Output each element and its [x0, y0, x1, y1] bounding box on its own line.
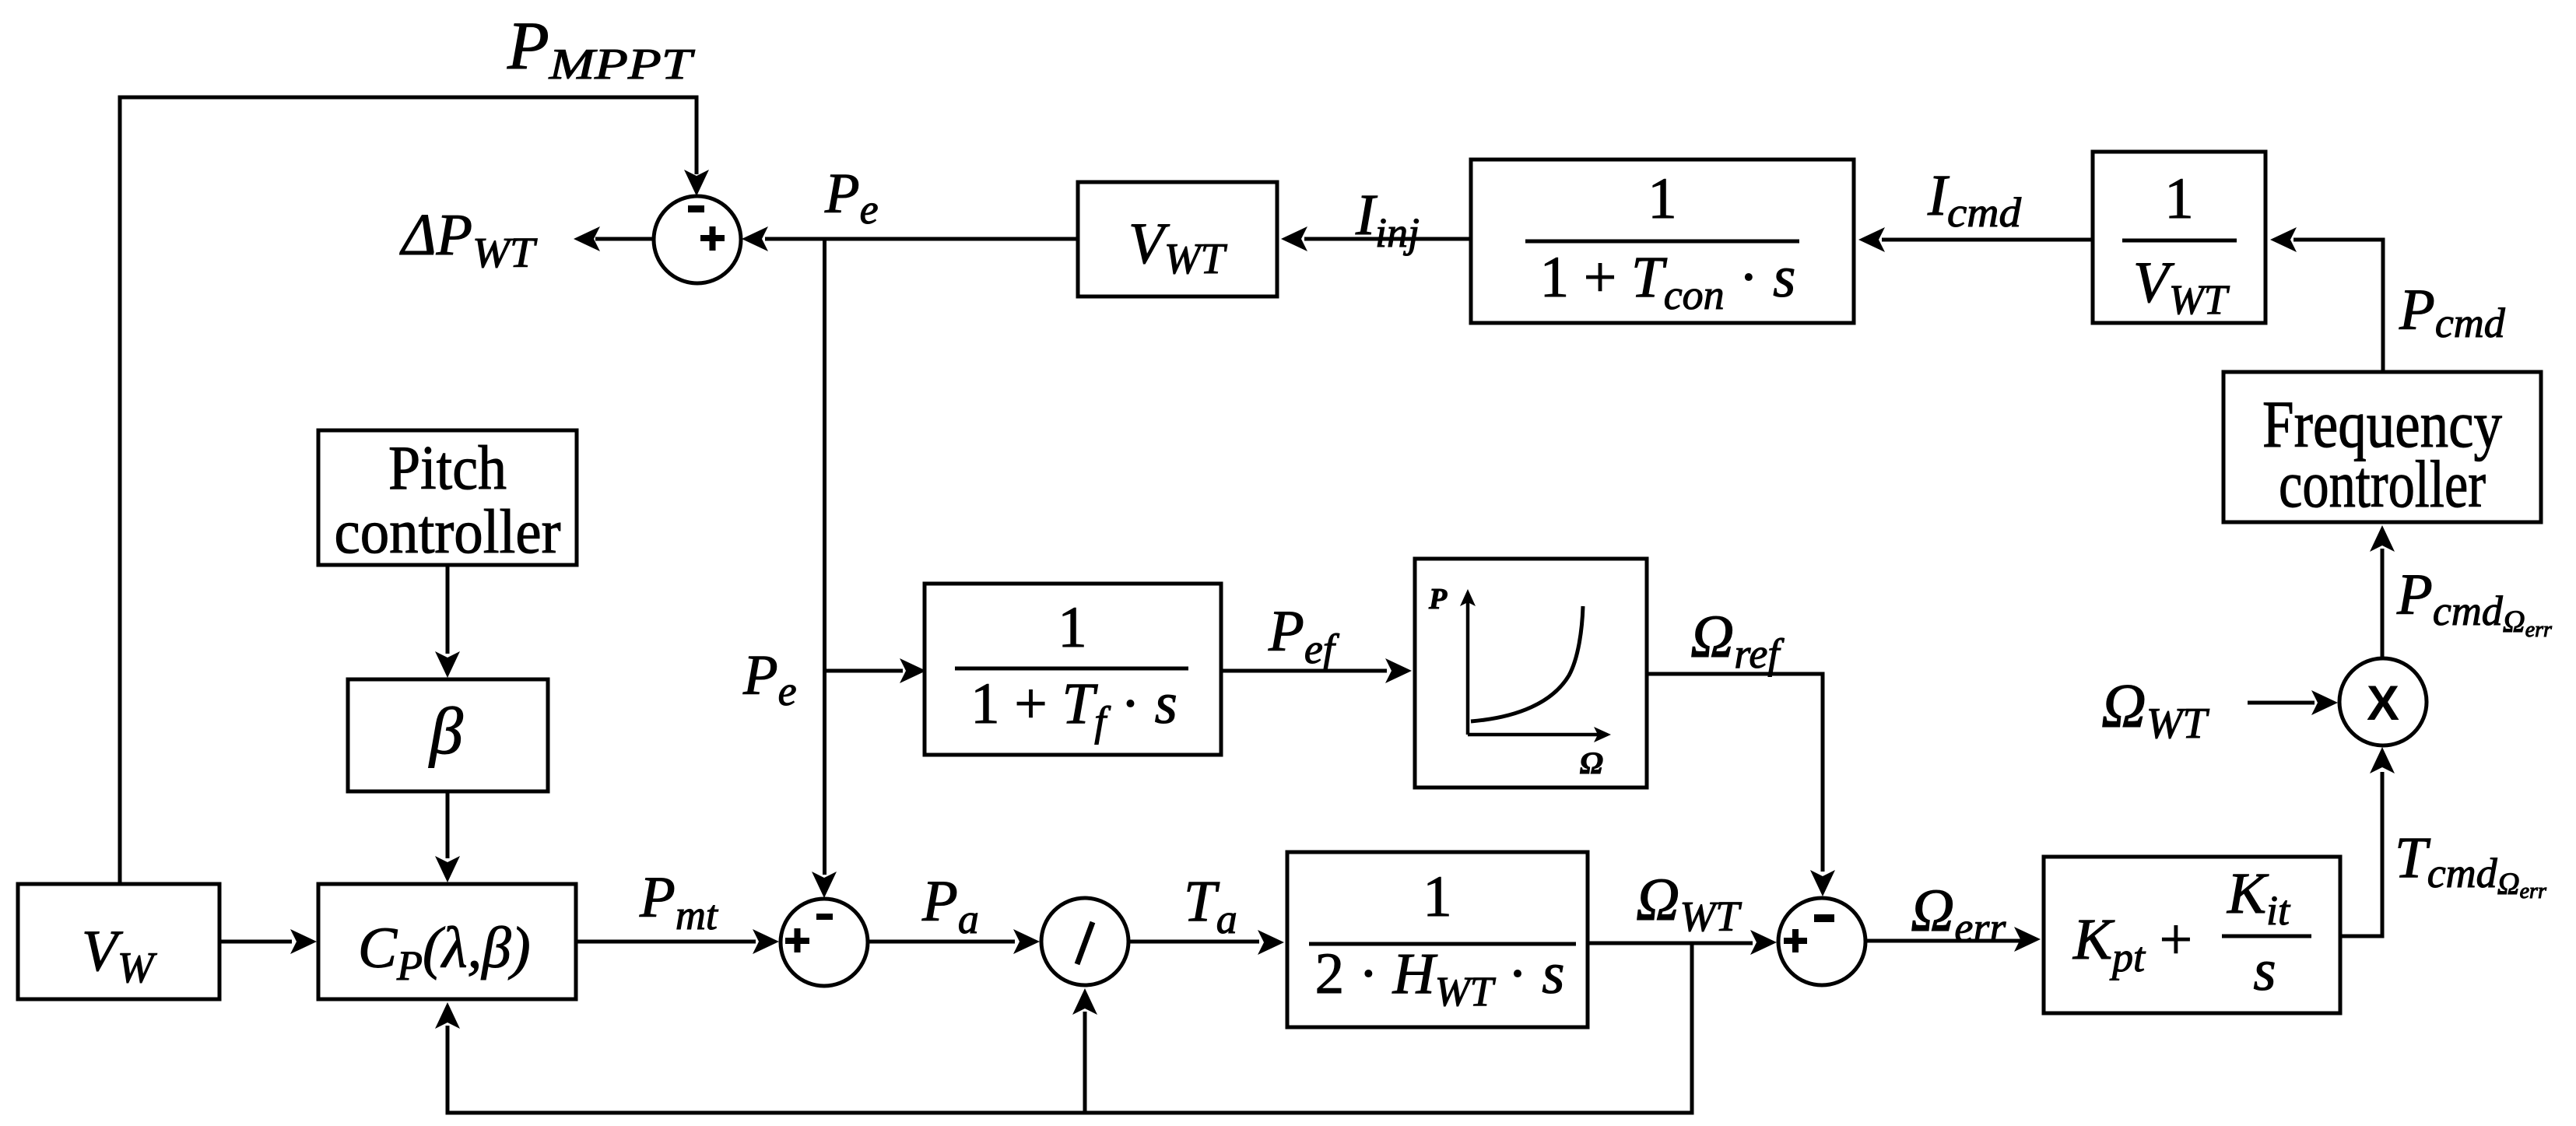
plus sign in S1: [700, 226, 725, 251]
block Frequency controller: [2223, 372, 2541, 522]
wire P_mt from C_P to S2: [576, 940, 756, 944]
arrowhead down into beta block: [435, 651, 460, 678]
arrowhead left into S1 from P_e: [742, 226, 768, 251]
wire P_e branch to 1/(1+Tf s) block: [825, 669, 904, 673]
block Kpt + Kit/s: [2044, 857, 2340, 1013]
arrowhead up into divider bottom: [1072, 988, 1097, 1015]
svg-text:1: 1: [2164, 167, 2194, 231]
arrowhead down into C_P block: [435, 856, 460, 882]
arrowhead up into Frequency controller: [2370, 525, 2395, 552]
arrowhead right into S2: [753, 929, 779, 954]
summing junction S1: [654, 196, 741, 283]
wire Omega_err from S3 into K block: [1865, 939, 2020, 943]
svg-text:1: 1: [1058, 595, 1087, 660]
wire output of S1 to Delta P_WT: [595, 237, 654, 241]
summing junction S3: [1778, 898, 1865, 985]
wire I_cmd from 1/V_WT block to Tcon block: [1882, 238, 2093, 242]
arrowhead right into C_P: [290, 929, 317, 954]
wire T_a from divider to H block: [1130, 940, 1259, 944]
curve axes: [1466, 601, 1470, 735]
svg-text:P: P: [1428, 583, 1448, 616]
arrowhead right into curve block: [1385, 658, 1412, 683]
wire P_MPPT from V_W top up, across, and down into S1: [120, 97, 697, 884]
wire T_cmd from K block right side up into multiplier bottom: [2340, 772, 2382, 936]
arrowhead left Delta P_WT: [574, 226, 600, 251]
block C_P(lambda,beta): [318, 884, 576, 999]
slash in divider: [1077, 922, 1093, 964]
block Pitch controller: [318, 430, 577, 567]
block beta: [348, 679, 548, 791]
minus sign in S2: [816, 914, 833, 920]
arrowhead left into 1/V_WT: [2270, 227, 2297, 252]
arrowhead right into multiplier: [2311, 690, 2338, 715]
plus sign in S3: [1784, 929, 1807, 952]
wire P_a from S2 to divider: [869, 940, 1015, 944]
arrowhead up into multiplier bottom: [2370, 747, 2395, 773]
block P-Omega curve: [1415, 559, 1647, 787]
svg-text:Ω: Ω: [1580, 745, 1603, 780]
plus sign in S2: [785, 928, 809, 952]
summing junction S2: [781, 899, 868, 986]
arrowhead right into S3: [1750, 930, 1777, 955]
block V_WT: [1078, 182, 1277, 296]
arrowhead right into K block: [2014, 927, 2041, 952]
arrowhead down into S3: [1810, 870, 1835, 896]
svg-text:X: X: [2367, 676, 2399, 731]
minus sign in S3: [1814, 914, 1834, 922]
svg-text:1: 1: [1423, 865, 1452, 929]
wire Omega_WT from H block into S3 with branch down: [1588, 942, 1753, 945]
svg-text:1 + Tf · s: 1 + Tf · s: [970, 672, 1177, 745]
svg-text:s: s: [2253, 938, 2276, 1003]
wire P_cmd from Frequency controller up and into 1/V_WT: [2293, 240, 2383, 372]
wire Omega_WT into multiplier: [2248, 701, 2315, 705]
exponential curve: [1471, 606, 1583, 721]
svg-text:1: 1: [1648, 167, 1677, 231]
wire P_ef from Tf block to curve block: [1221, 669, 1387, 673]
wire beta block to C_P block: [446, 791, 450, 858]
svg-text:CP(λ,β): CP(λ,β): [358, 916, 531, 989]
arrowhead up into C_P bottom: [435, 1002, 460, 1029]
arrowhead down into S2: [812, 872, 837, 898]
block 1/(1+Tcon s): [1471, 160, 1854, 323]
arrowhead right into Tf block: [900, 658, 926, 683]
arrowhead down into S1: [684, 170, 709, 196]
arrowhead right into H block: [1258, 930, 1284, 955]
arrowhead left into Tcon block: [1858, 227, 1885, 252]
svg-text:Pitch: Pitch: [388, 434, 507, 503]
wire bottom feedback with branch down from Omega_WT line to C_P and divider: [447, 943, 1692, 1113]
svg-text:β: β: [428, 693, 463, 768]
wire P_e vertical branch down to summing junction S2: [823, 239, 826, 875]
block 1/V_WT: [2093, 152, 2265, 323]
wire from multiplier X up into Frequency controller: [2381, 549, 2385, 658]
multiplier X circle: [2339, 658, 2427, 745]
divider circle: [1041, 898, 1128, 985]
block 1/(2 H_WT s): [1287, 852, 1588, 1027]
arrowhead right into divider: [1013, 929, 1040, 954]
wire I_inj from Tcon block to V_WT block: [1304, 237, 1471, 241]
wire Pitch controller to beta block: [446, 565, 450, 654]
wire V_W to C_P: [219, 940, 292, 944]
block V_W: [18, 884, 219, 999]
wire Omega_ref from curve block down into S3: [1647, 674, 1823, 872]
block 1/(1+Tf s): [925, 584, 1221, 755]
wire branch up into divider bottom: [1083, 1012, 1087, 1113]
svg-text:controller: controller: [2279, 447, 2486, 521]
wire P_e from V_WT block into S1: [765, 237, 1078, 241]
minus sign in S1: [688, 205, 704, 212]
arrowhead left into V_WT: [1281, 226, 1307, 251]
svg-text:controller: controller: [335, 498, 561, 567]
